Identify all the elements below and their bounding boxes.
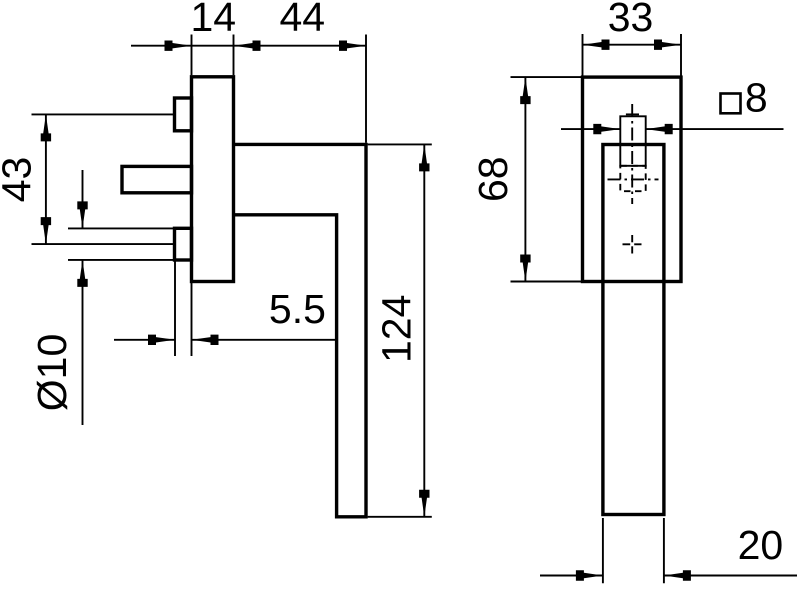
svg-text:20: 20	[738, 522, 784, 568]
dim D10 line top	[82, 170, 84, 228]
rosette front	[583, 77, 682, 281]
svg-text:8: 8	[745, 74, 768, 120]
dim 68 extension line top	[511, 76, 583, 78]
dim 14 line	[192, 45, 234, 47]
dim 5.5 extension line right	[191, 283, 193, 356]
dim 68 line	[524, 77, 526, 281]
lower screw boss	[175, 228, 192, 260]
dim 43 arrow bottom	[41, 217, 51, 244]
handle lever outline	[234, 144, 367, 516]
dim 5.5 line left	[114, 339, 175, 341]
horizontal centerline	[608, 178, 659, 180]
dim D10 line bottom	[82, 260, 84, 425]
dim 124 line	[423, 144, 425, 516]
dim sq8 line left	[561, 128, 620, 130]
dim 5.5 arrow left	[148, 335, 175, 345]
top screw boss	[175, 98, 192, 131]
svg-text:43: 43	[0, 157, 40, 203]
svg-text:68: 68	[470, 156, 516, 202]
dim 20 arrow left	[576, 570, 603, 580]
svg-text:33: 33	[608, 0, 654, 40]
dim 124 arrow bottom	[419, 490, 429, 517]
dim 5.5 arrow right	[192, 335, 219, 345]
spindle square (solid)	[620, 116, 645, 166]
dim 20 line right	[664, 575, 797, 577]
dim 68 arrow top	[520, 77, 530, 104]
dim 124 extension line top	[368, 143, 432, 145]
svg-text:124: 124	[374, 295, 420, 363]
svg-text:14: 14	[190, 0, 236, 40]
svg-text:Ø10: Ø10	[29, 334, 75, 412]
dim 14 extension line left	[191, 35, 193, 76]
dim 43 arrow top	[41, 114, 51, 141]
vertical centerline	[631, 104, 633, 204]
dim 44 arrow right	[339, 41, 366, 51]
dim D10 extension line bottom	[68, 259, 174, 261]
dim 14 arrow left	[165, 41, 192, 51]
dim 44 line	[234, 45, 367, 47]
dim 14 extension line right	[233, 35, 235, 76]
dim sq8 arrow left	[593, 124, 620, 134]
top screw hole tick	[626, 113, 639, 115]
dim 43 line	[45, 114, 47, 244]
svg-text:5.5: 5.5	[269, 286, 326, 332]
dim 33 extension line right	[680, 34, 682, 76]
dim 124 arrow top	[419, 144, 429, 171]
dim 44 extension line right	[365, 35, 367, 143]
dim 5.5 extension line left	[174, 262, 176, 357]
dim 124 extension line bottom	[368, 516, 432, 518]
handle neck + bar front	[603, 145, 664, 515]
dim 14 line outside left	[131, 45, 192, 47]
dim sq8 square symbol	[721, 94, 741, 114]
spindle square hidden (dashed)	[620, 166, 645, 191]
dim 33 line	[583, 44, 682, 46]
dim 20 extension line right	[663, 518, 665, 583]
dim D10 arrow bottom	[77, 260, 87, 287]
dim 5.5 line right	[192, 339, 337, 341]
dim 20 arrow right	[664, 570, 691, 580]
dim 43 extension line bottom	[32, 243, 175, 245]
dim 33 arrow left	[583, 40, 610, 50]
dim sq8 line right	[646, 128, 784, 130]
dim 33 arrow right	[654, 40, 681, 50]
bottom screw hole cross	[623, 243, 631, 245]
plate (rosette side view)	[192, 77, 234, 282]
dim 43 extension line top	[32, 113, 175, 115]
spindle	[122, 166, 192, 192]
dim 68 arrow bottom	[520, 255, 530, 282]
dim D10 extension line top	[68, 227, 174, 229]
dim 68 extension line bottom	[511, 281, 583, 283]
dim 20 extension line left	[602, 518, 604, 583]
dim 44 arrow left	[234, 41, 261, 51]
dim sq8 arrow right	[646, 124, 673, 134]
svg-text:44: 44	[279, 0, 325, 40]
dim 20 line left	[540, 575, 603, 577]
dim D10 arrow top	[77, 201, 87, 228]
dim 33 extension line left	[582, 34, 584, 76]
